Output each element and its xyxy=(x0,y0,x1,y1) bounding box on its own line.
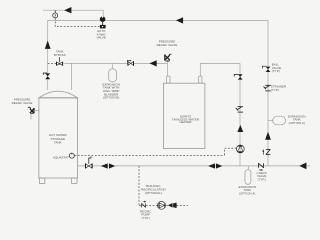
aquastat dashed control line xyxy=(74,155,224,157)
heater right stub fitting xyxy=(199,76,202,83)
label hot water storage tank xyxy=(49,133,67,144)
svg-text:(TYP.): (TYP.) xyxy=(258,177,266,181)
expansion tank B stub xyxy=(111,63,113,69)
wire heater left stub riser xyxy=(166,61,168,76)
aquastat xyxy=(69,153,74,159)
ball valve on left riser xyxy=(43,73,50,79)
bypass valve xyxy=(57,57,63,65)
label expansion tank A right xyxy=(288,114,305,124)
label expansion tank A bottom xyxy=(239,185,256,195)
svg-text:(TYP.): (TYP.) xyxy=(271,88,279,92)
temperature sensor circle xyxy=(53,10,58,18)
label auto 3-way valve xyxy=(97,29,106,40)
heater pump xyxy=(236,145,244,153)
check valve on x268 riser xyxy=(262,149,270,155)
flow arrow up on left riser xyxy=(45,41,51,49)
ball valve on x240 riser xyxy=(234,74,242,79)
wire right riser x240 xyxy=(239,63,241,165)
label pressure relief valve center xyxy=(157,40,178,47)
recirc flow arrow xyxy=(168,203,173,208)
svg-text:RELIEF VALVE: RELIEF VALVE xyxy=(12,101,33,105)
svg-text:HEATER: HEATER xyxy=(180,120,192,124)
flow arrow up x240 xyxy=(237,125,243,132)
flow arrows pair 1 xyxy=(101,163,115,168)
svg-text:BYPASS: BYPASS xyxy=(54,53,66,57)
label strainer xyxy=(271,85,286,92)
strainer on x268 riser xyxy=(264,85,271,91)
heater left stub fitting xyxy=(167,76,170,83)
flow arrow up x268 xyxy=(265,132,271,140)
flow arrow on return line xyxy=(150,60,157,66)
label recirc pump xyxy=(140,210,152,220)
label check valve xyxy=(257,171,268,181)
expansion tank A right xyxy=(273,116,286,125)
building recirc dashed riser xyxy=(138,166,140,206)
wire hot return line y63.4 xyxy=(65,62,167,64)
flow arrows pair 2 xyxy=(208,163,222,168)
flow arrow right end xyxy=(299,163,306,170)
wire tank inlet drop x71.5 xyxy=(71,63,73,90)
expansion tank B xyxy=(109,69,117,82)
label expansion tank B xyxy=(103,82,120,99)
strainer on x240 riser xyxy=(236,107,243,112)
wire hot supply top pipe A xyxy=(43,10,103,16)
expansion tank A bottom xyxy=(245,170,251,185)
wire heater right stub riser xyxy=(200,63,240,76)
svg-text:(OPTION A): (OPTION A) xyxy=(239,191,255,195)
wire riser left x47.7 xyxy=(47,20,49,90)
tankless water heater box xyxy=(163,83,205,148)
wire bottom cold water pipe xyxy=(78,165,311,167)
svg-text:(OPTION A): (OPTION A) xyxy=(289,121,305,125)
auto 3-way valve xyxy=(100,16,106,28)
relief valve drain xyxy=(30,113,32,119)
svg-text:(TYP.): (TYP.) xyxy=(141,216,149,220)
label ball valve xyxy=(272,63,281,73)
recirc check valve xyxy=(142,201,146,208)
expansion tank A bottom stub xyxy=(247,166,249,170)
flow arrow on pipe B xyxy=(176,17,183,23)
wire right riser x268 xyxy=(267,20,269,165)
svg-text:(OPTION B): (OPTION B) xyxy=(103,96,120,100)
svg-text:AQUASTAT: AQUASTAT xyxy=(53,155,69,159)
ball valve on x268 riser xyxy=(262,66,270,72)
tank bypass dashed line xyxy=(48,62,66,64)
recirc cone fitting xyxy=(173,203,176,208)
relief valve stub to tank xyxy=(34,110,40,112)
flow arrow on pipe A xyxy=(64,7,71,13)
hot water storage tank xyxy=(39,91,78,183)
control dashed line sensor to 3-way valve xyxy=(55,18,99,27)
label tank bypass xyxy=(54,50,66,58)
pressure relief valve center xyxy=(165,54,172,61)
svg-text:RELIEF VALVE: RELIEF VALVE xyxy=(157,43,178,47)
svg-text:(TYP.): (TYP.) xyxy=(272,69,280,73)
label tankless water heater xyxy=(172,114,199,124)
recirc pump xyxy=(158,202,166,210)
svg-text:VALVE: VALVE xyxy=(97,36,106,40)
recirc dashed line xyxy=(139,204,188,206)
svg-text:(OPTIONAL): (OPTIONAL) xyxy=(145,191,162,195)
label pressure relief valve left xyxy=(12,98,33,105)
ball valve on return line xyxy=(128,60,134,65)
expansion tank A stub right xyxy=(268,119,273,121)
svg-text:TANK: TANK xyxy=(54,141,62,145)
tank pressure relief valve xyxy=(28,107,34,113)
wire pipe B horizontal xyxy=(48,19,268,21)
check valve on bottom pipe xyxy=(258,163,263,171)
aquastat control dashed to pump xyxy=(225,148,237,156)
label building recirculation xyxy=(141,184,165,195)
auto valve at tank outlet xyxy=(86,156,93,168)
